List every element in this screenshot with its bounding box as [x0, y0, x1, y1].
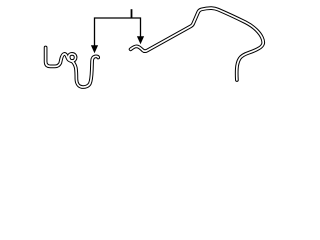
bracket tick: [131, 9, 133, 18]
arrowhead right: [137, 36, 144, 44]
callout bracket: [95, 18, 141, 47]
arrowhead left: [91, 45, 98, 53]
hose right inner: [131, 8, 264, 80]
hose left inner: [46, 48, 99, 88]
hose right outline: [131, 8, 264, 80]
hose left outline: [46, 48, 99, 88]
